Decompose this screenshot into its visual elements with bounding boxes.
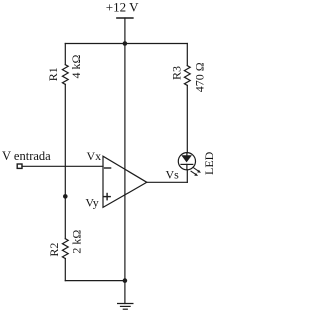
wire ground stub — [124, 281, 126, 304]
wire left rail middle — [64, 84, 66, 238]
junction node Vy tap — [63, 194, 68, 199]
wire +12V stub — [124, 18, 126, 44]
op-amp inverting pin mark — [105, 167, 111, 169]
svg-text:LED: LED — [202, 151, 216, 175]
junction top node — [123, 41, 128, 46]
svg-text:Vx: Vx — [87, 149, 102, 163]
svg-text:R1: R1 — [46, 67, 60, 81]
LED D1 — [178, 153, 195, 170]
wire right rail middle — [186, 85, 188, 152]
power rail bar — [117, 17, 133, 19]
svg-text:V entrada: V entrada — [2, 149, 51, 163]
resistor R1 — [62, 65, 68, 85]
wire left rail upper — [64, 44, 66, 65]
resistor R2 — [62, 239, 68, 259]
wire left rail lower — [64, 259, 66, 281]
resistor R3 — [184, 66, 190, 86]
svg-text:+12 V: +12 V — [106, 0, 139, 15]
wire right rail lower — [186, 170, 188, 183]
op-amp non-inverting pin mark — [104, 194, 110, 200]
wire op-amp output — [147, 181, 188, 183]
terminal V entrada — [17, 164, 22, 168]
ground — [118, 304, 133, 310]
op-amp U1 — [103, 156, 147, 207]
LED light arrows — [191, 168, 201, 176]
junction bottom node — [123, 278, 128, 283]
wire right rail upper — [186, 44, 188, 66]
wire bottom rail — [65, 280, 125, 282]
svg-text:2 kΩ: 2 kΩ — [69, 230, 83, 254]
svg-text:R3: R3 — [170, 66, 184, 80]
svg-text:Vs: Vs — [166, 168, 180, 182]
wire V entrada to Vx — [22, 165, 103, 167]
wire center rail — [124, 44, 126, 281]
svg-text:470 Ω: 470 Ω — [192, 62, 206, 92]
svg-text:R2: R2 — [47, 243, 61, 257]
svg-text:Vy: Vy — [85, 196, 98, 210]
svg-text:4 kΩ: 4 kΩ — [69, 55, 83, 79]
wire top rail — [65, 43, 187, 45]
